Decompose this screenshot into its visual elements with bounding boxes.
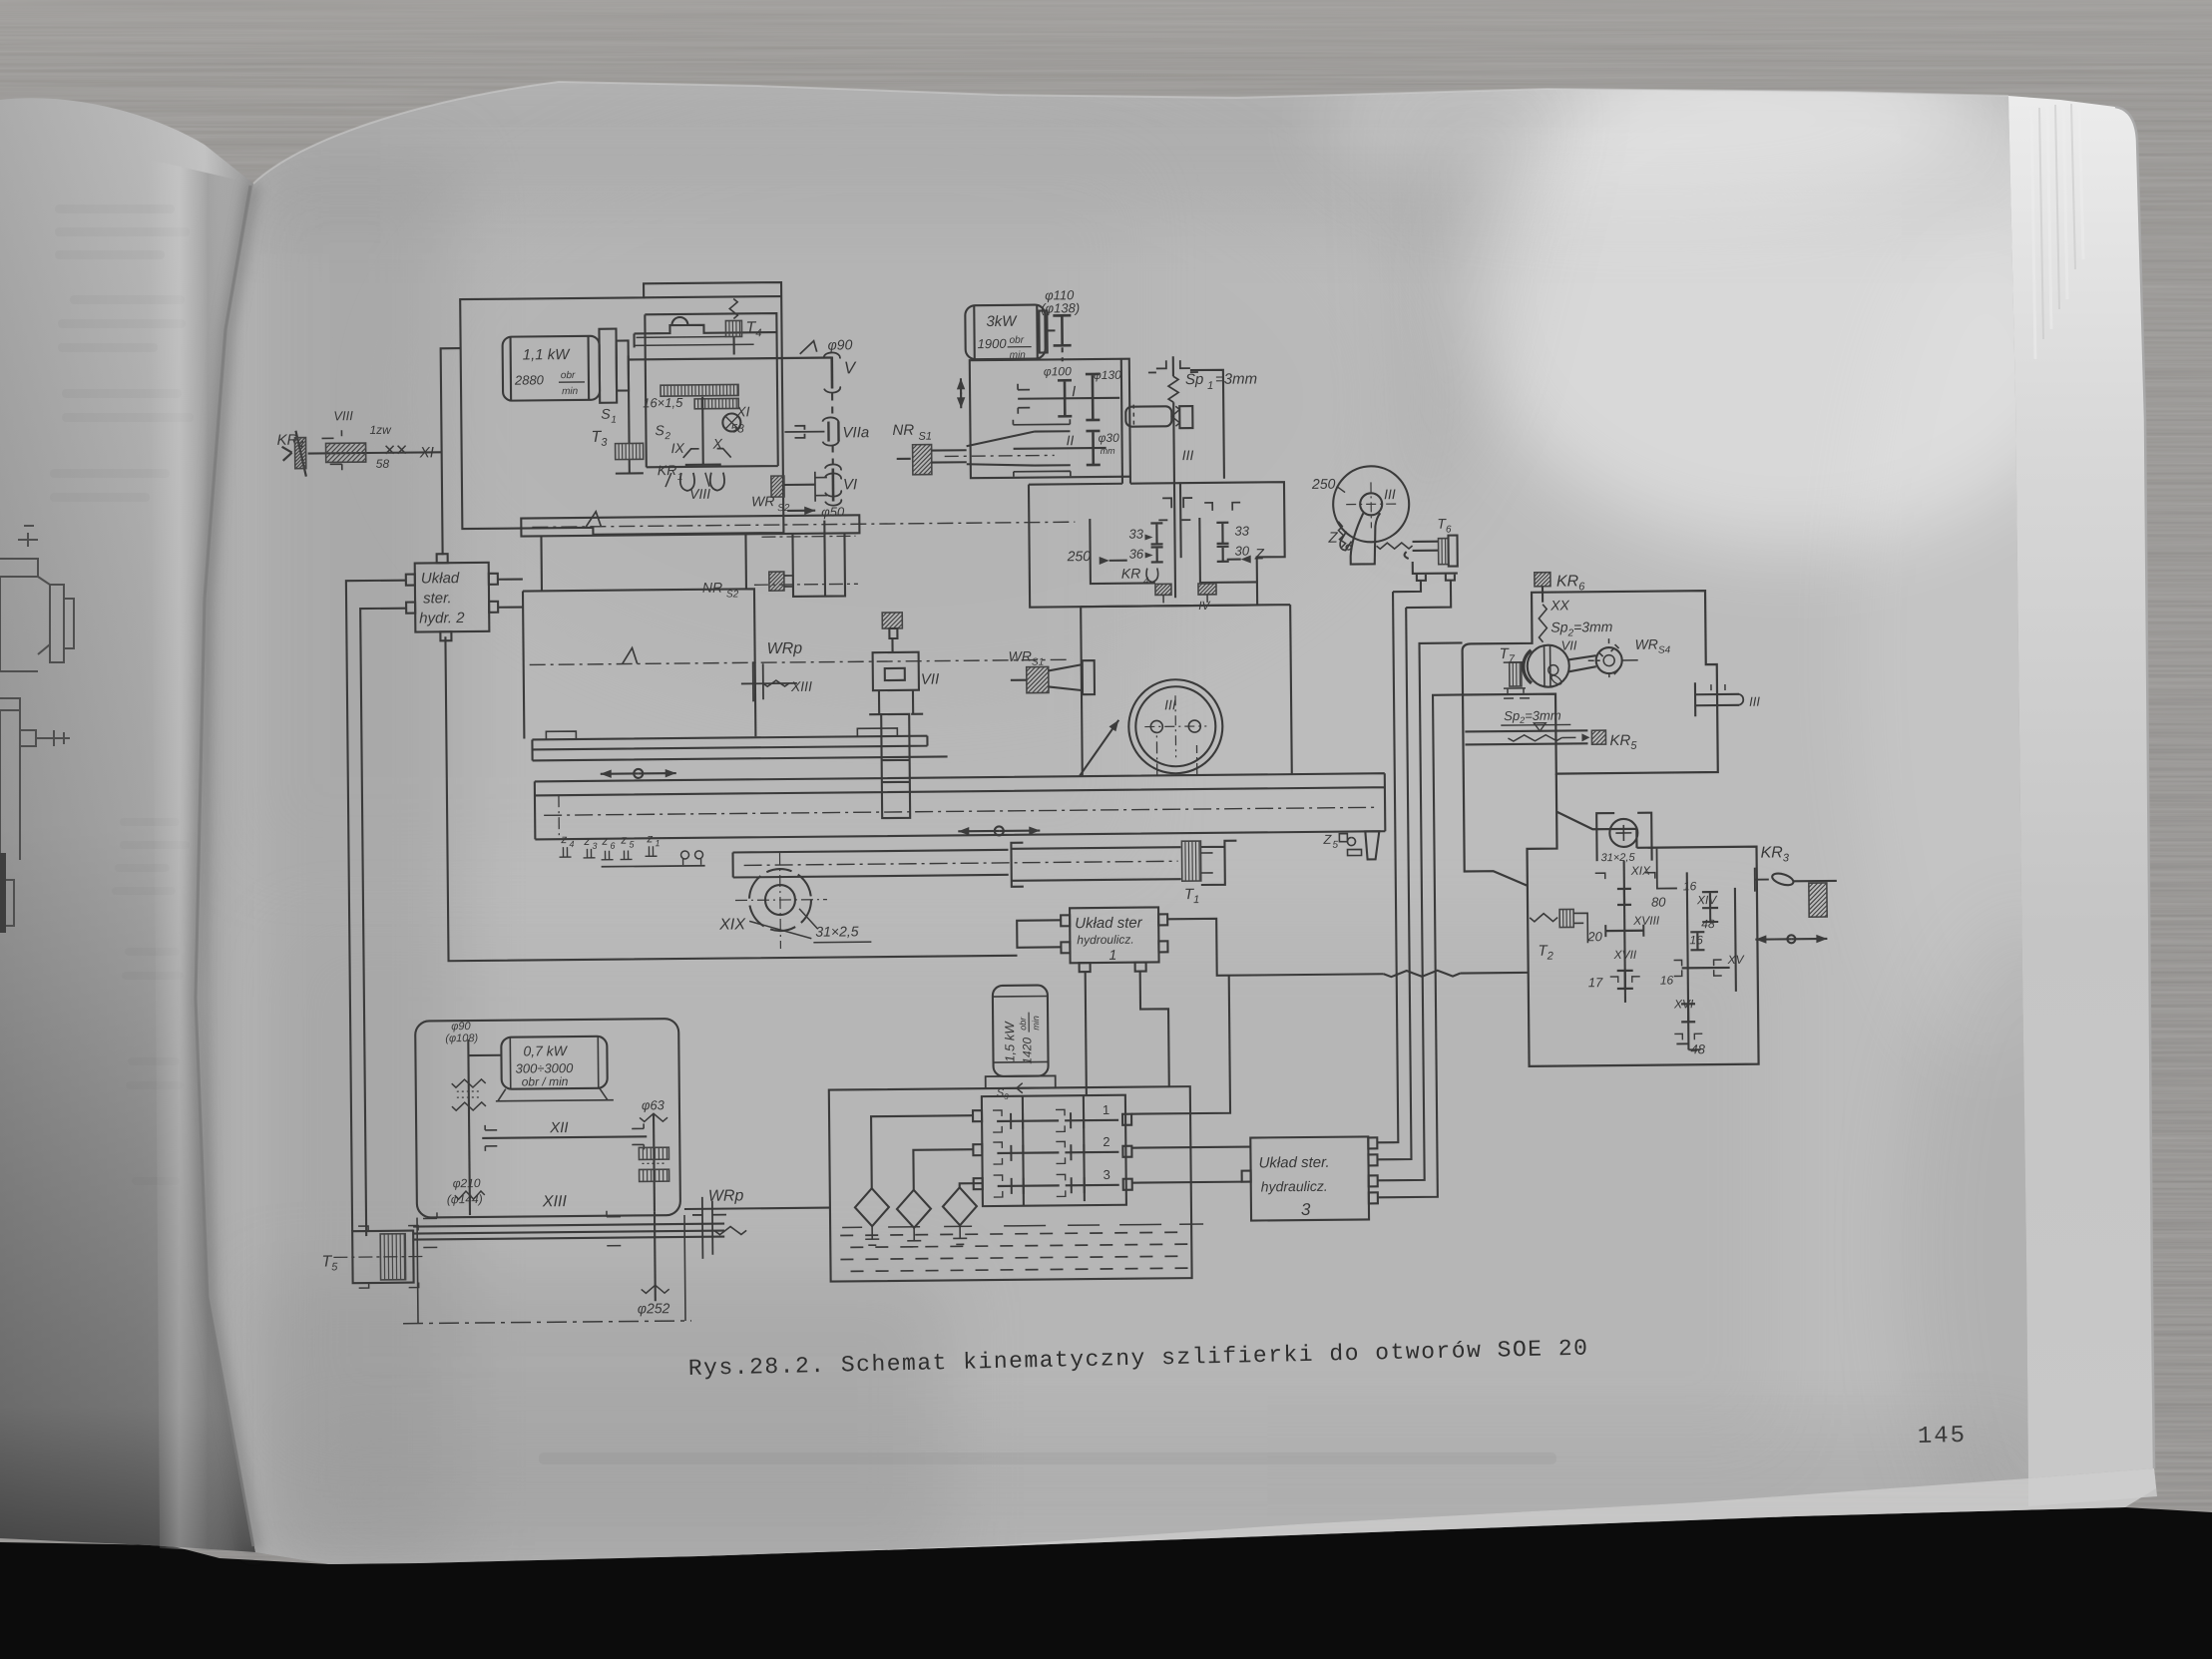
- svg-text:2: 2: [664, 431, 670, 442]
- gear pair 33/30: [1204, 503, 1250, 562]
- shaft III lower section with dog clutches: [1158, 483, 1193, 598]
- svg-text:WR: WR: [751, 493, 774, 509]
- cam follower NRS2: [702, 572, 793, 601]
- svg-text:φ90: φ90: [451, 1021, 471, 1033]
- feed screw block with nut T1: [1011, 841, 1237, 908]
- svg-text:KR: KR: [1121, 566, 1141, 582]
- wires unit1 bottom to pump: [1086, 971, 1169, 1095]
- shaft I with pulleys d100 d130: [1018, 364, 1122, 421]
- belt dashed: [831, 394, 834, 464]
- motor M3 1,5 kW 1420 obr/min (vertical): [985, 985, 1056, 1101]
- svg-text:z: z: [620, 833, 627, 847]
- svg-text:1: 1: [1108, 947, 1116, 963]
- pinion XIX 31x2,5: [718, 852, 872, 949]
- pulley d110 (d138): [1041, 287, 1081, 361]
- svg-text:Układ ster.: Układ ster.: [1258, 1154, 1329, 1172]
- input 250 arrow: [1067, 548, 1127, 566]
- faint ghost of reverse-side caption: [539, 1452, 1556, 1464]
- clutch T7 and index disc: [1500, 644, 1570, 698]
- handwheel knob: [1809, 883, 1827, 917]
- internal grinding spindle with wheel WRS1: [892, 419, 1071, 478]
- hydraulic control unit 1: [1061, 907, 1168, 972]
- svg-text:S: S: [601, 406, 611, 422]
- black table shadow at bottom: [0, 1507, 2212, 1659]
- svg-text:XVIII: XVIII: [1632, 914, 1660, 928]
- crank KR3: [1754, 844, 1836, 892]
- cross slide bar: [521, 507, 1075, 536]
- svg-text:XVII: XVII: [1612, 948, 1636, 962]
- clutch pulley VIIa: [784, 417, 869, 446]
- svg-text:φ210: φ210: [453, 1176, 481, 1190]
- svg-text:obr: obr: [1010, 335, 1025, 346]
- pipe from feed gearbox to tank: [684, 1208, 830, 1209]
- svg-text:6: 6: [610, 841, 615, 851]
- svg-text:XIII: XIII: [790, 678, 812, 694]
- oil level dashes: [840, 1224, 1203, 1271]
- vertical shaft VIII with bevel gears: [655, 396, 750, 465]
- svg-text:145: 145: [1918, 1423, 1968, 1451]
- dressing slide Sp2 KR5: [1465, 707, 1637, 754]
- svg-text:31×2,5: 31×2,5: [1601, 852, 1636, 864]
- svg-text:2880: 2880: [514, 372, 545, 387]
- svg-text:Z: Z: [1327, 530, 1338, 547]
- output gear d252 and base line: [402, 1211, 691, 1324]
- svg-text:16: 16: [1689, 933, 1703, 947]
- svg-text:φ30: φ30: [1098, 431, 1119, 445]
- svg-text:1900: 1900: [978, 336, 1008, 351]
- upper table rails: [532, 727, 947, 760]
- svg-text:z: z: [560, 832, 567, 846]
- svg-text:XI: XI: [735, 403, 749, 419]
- svg-text:1: 1: [611, 415, 617, 426]
- svg-text:1: 1: [1207, 380, 1213, 392]
- svg-text:3: 3: [592, 841, 597, 851]
- svg-text:1,1 kW: 1,1 kW: [523, 346, 572, 363]
- svg-text:58: 58: [376, 457, 390, 471]
- svg-text:16: 16: [1683, 879, 1697, 893]
- svg-text:33: 33: [1234, 524, 1249, 539]
- shaft XII: [482, 1118, 647, 1151]
- svg-text:(φ108): (φ108): [445, 1033, 478, 1044]
- svg-text:min: min: [562, 386, 579, 397]
- svg-text:36: 36: [1129, 547, 1144, 562]
- vertical feed arrows: [957, 378, 966, 408]
- figure caption: [688, 1336, 1589, 1382]
- svg-text:1: 1: [1103, 1102, 1109, 1117]
- svg-text:IX: IX: [671, 440, 685, 456]
- quill housing detail: [634, 316, 775, 347]
- filter connections: [854, 1115, 983, 1247]
- svg-text:φ252: φ252: [638, 1300, 670, 1316]
- svg-text:S2: S2: [726, 589, 739, 600]
- svg-text:VIIa: VIIa: [842, 424, 869, 441]
- gear rack 16x1,5: [643, 384, 738, 410]
- gear pair 33/36: [1128, 523, 1162, 562]
- svg-text:4: 4: [569, 839, 574, 849]
- feeler wheel WRS4: [1567, 635, 1670, 677]
- ratchet drive 31x2,5 XIX: [1594, 813, 1655, 880]
- svg-text:2: 2: [1103, 1134, 1109, 1149]
- svg-text:5: 5: [1332, 840, 1338, 851]
- svg-text:Układ ster: Układ ster: [1075, 915, 1143, 933]
- long shaft XIII to table: [413, 1192, 724, 1248]
- svg-text:30: 30: [1235, 544, 1250, 559]
- svg-text:III: III: [1384, 486, 1396, 502]
- svg-text:1,5 kW: 1,5 kW: [1002, 1021, 1017, 1062]
- bell cranks KR1: [658, 462, 725, 503]
- svg-text:31×2,5: 31×2,5: [815, 923, 859, 939]
- variator pulleys on vertical shaft: [445, 1021, 503, 1216]
- motor M1 1,1 kW 2880 obr/min: [503, 336, 601, 401]
- svg-text:z: z: [601, 834, 608, 848]
- pump outlet pipes: [1130, 976, 1251, 1183]
- svg-text:1: 1: [655, 838, 660, 848]
- rack gears z4 z3 z6 z5 z1: [559, 831, 704, 867]
- svg-text:XV: XV: [1727, 953, 1745, 967]
- limit switch WRS2: [751, 476, 815, 516]
- svg-text:hydraulicz.: hydraulicz.: [1261, 1178, 1328, 1195]
- svg-text:φ130: φ130: [1094, 368, 1121, 382]
- svg-text:III: III: [1182, 447, 1194, 463]
- wire loop left of unit 1: [1017, 920, 1061, 947]
- svg-text:Z: Z: [1322, 832, 1332, 847]
- dresser stand VII: [868, 613, 940, 819]
- svg-text:I: I: [1072, 383, 1076, 400]
- feed gearbox (right) housing: [1463, 692, 1759, 1067]
- svg-text:S2: S2: [777, 503, 790, 514]
- lower feed rail: [733, 848, 1178, 877]
- svg-text:S: S: [655, 422, 664, 438]
- svg-text:XIII: XIII: [542, 1193, 568, 1210]
- svg-text:obr / min: obr / min: [522, 1074, 569, 1088]
- belt wheel 250/III: [1311, 466, 1410, 548]
- feed gearbox housing: [415, 1019, 680, 1218]
- frame line right of spindle: [1190, 370, 1224, 479]
- pulley V d90 on belt: [800, 336, 858, 393]
- svg-text:X: X: [711, 436, 722, 452]
- svg-text:33: 33: [1128, 527, 1143, 542]
- svg-text:3: 3: [1104, 1167, 1110, 1182]
- svg-text:1420: 1420: [1020, 1037, 1034, 1064]
- hydraulic tank: [829, 1086, 1192, 1281]
- wheelhead gearbox housing: [970, 359, 1130, 479]
- svg-text:NR: NR: [892, 422, 914, 439]
- svg-text:48: 48: [1690, 1041, 1705, 1056]
- wires from unit 2 right pins to column: [498, 580, 523, 608]
- wire from headstock to Uklad ster. hydr. 2: [441, 348, 463, 555]
- svg-text:XIX: XIX: [718, 916, 746, 933]
- column housing: [522, 531, 1067, 738]
- jog arrow: [1755, 935, 1827, 944]
- svg-text:obr: obr: [1018, 1017, 1028, 1031]
- svg-text:z: z: [583, 834, 590, 848]
- svg-text:II: II: [1066, 432, 1074, 448]
- svg-text:NR: NR: [702, 580, 722, 596]
- svg-text:ster.: ster.: [423, 590, 452, 607]
- svg-text:XII: XII: [549, 1119, 569, 1136]
- belt tensioner slide: [1125, 404, 1192, 429]
- selector KR4 detail: [1121, 565, 1216, 614]
- vertical shaft XVIII with gears: [1586, 861, 1661, 1004]
- wires from unit 2 left pins down to T5: [346, 581, 412, 1237]
- svg-text:3: 3: [1301, 1200, 1311, 1219]
- svg-text:φ100: φ100: [1044, 364, 1072, 378]
- page block right edge: [2008, 96, 2157, 1506]
- svg-text:mm: mm: [1101, 446, 1116, 456]
- hydraulic control unit 2: [406, 554, 499, 641]
- svg-text:min: min: [1031, 1016, 1041, 1031]
- svg-text:(φ144): (φ144): [447, 1192, 483, 1206]
- svg-text:XI: XI: [419, 444, 434, 461]
- svg-text:φ50: φ50: [821, 504, 845, 519]
- svg-text:Sp: Sp: [1185, 371, 1204, 388]
- shaft II with pulley d30: [1013, 431, 1119, 466]
- motor M4 0,7 kW 300-3000 obr/min: [495, 1037, 614, 1101]
- svg-text:250: 250: [1311, 476, 1336, 492]
- thin bright rim along page top edge: [253, 82, 2008, 184]
- wire bundle verticals: [1373, 642, 1468, 1197]
- left (facing) page of the book: [0, 98, 255, 1552]
- bracket and wires from T6: [1393, 562, 1458, 609]
- brake T4 with spring: [725, 298, 761, 354]
- shaft XI with worm 1zw: [307, 407, 442, 471]
- spindle head housing: [1029, 475, 1285, 607]
- svg-text:φ90: φ90: [828, 336, 853, 352]
- svg-text:V: V: [844, 358, 857, 377]
- bottom page block edge + rim: [329, 1468, 2156, 1564]
- wire from unit 2 to unit 1: [445, 631, 1017, 961]
- left page diagram fragments (previous figure): [0, 526, 74, 933]
- lever spring to clutch T6: [1376, 516, 1457, 568]
- feed arrow into workhead: [1079, 720, 1119, 776]
- gear pump stages 1 2 3: [973, 1095, 1132, 1207]
- spring loaded pawl T2: [1530, 909, 1588, 963]
- wire unit1 right to right gearbox: [1167, 916, 1529, 979]
- gutter shading: [150, 160, 255, 1552]
- svg-text:VIII: VIII: [689, 486, 710, 502]
- svg-text:z: z: [646, 831, 653, 845]
- table right end stop Z5: [1322, 831, 1379, 860]
- clutch T3 on vertical shaft: [591, 355, 644, 473]
- svg-text:WRp: WRp: [708, 1187, 744, 1204]
- svg-text:(φ138): (φ138): [1041, 300, 1080, 315]
- svg-text:III: III: [1164, 696, 1176, 712]
- svg-text:Z: Z: [1254, 546, 1265, 563]
- svg-text:hydr. 2: hydr. 2: [419, 610, 465, 626]
- svg-text:VIII: VIII: [333, 408, 353, 423]
- svg-text:250: 250: [1067, 548, 1092, 564]
- svg-text:80: 80: [1651, 895, 1666, 910]
- table traverse arrow right: [958, 826, 1040, 836]
- pulley VI d50: [815, 464, 858, 520]
- gear coupling T5: [321, 1226, 424, 1289]
- external wheel WRS1 with cone: [1009, 647, 1095, 695]
- svg-text:1: 1: [677, 472, 683, 483]
- svg-text:17: 17: [1588, 975, 1603, 990]
- svg-text:Sp2=3mm: Sp2=3mm: [1504, 708, 1561, 726]
- wires unit 3 to right bundle: [1372, 592, 1411, 1159]
- saddle end bracket: [753, 520, 858, 597]
- svg-text:XIX: XIX: [1630, 864, 1651, 878]
- svg-text:Układ: Układ: [421, 570, 460, 587]
- hand crank KR4: [276, 431, 305, 477]
- handwheel WRp on shaft XIII: [692, 1187, 747, 1259]
- spindle shaft III with spring Sp1: [1148, 355, 1258, 483]
- svg-text:XVI: XVI: [1673, 997, 1694, 1011]
- hydraulic control unit 3: [1241, 1136, 1378, 1220]
- svg-text:φ63: φ63: [642, 1097, 665, 1112]
- svg-text:XX: XX: [1549, 597, 1569, 613]
- workhead housing: [1081, 605, 1292, 776]
- motor flange and clutch S1: [599, 327, 832, 426]
- gear train XIV XV XVI: [1651, 848, 1746, 1057]
- ghost text on left page: [50, 205, 194, 1185]
- workpiece spindle III right: [1695, 682, 1761, 717]
- faceplate wheel III: [1128, 679, 1223, 774]
- wheel truing head housing: [1462, 591, 1718, 774]
- svg-text:=3mm: =3mm: [1215, 370, 1257, 387]
- motor M2 3 kW 1900 obr/min: [965, 304, 1048, 361]
- svg-text:48: 48: [1701, 917, 1715, 931]
- svg-text:obr: obr: [561, 370, 576, 381]
- svg-text:hydroulicz.: hydroulicz.: [1077, 933, 1133, 948]
- svg-text:VI: VI: [843, 476, 857, 493]
- svg-text:S1: S1: [918, 431, 932, 443]
- table dresser WRp: [740, 640, 812, 702]
- svg-text:XIV: XIV: [1696, 893, 1717, 907]
- svg-text:16: 16: [1660, 973, 1674, 987]
- svg-text:1zw: 1zw: [369, 423, 392, 437]
- machine bed table: [534, 733, 1385, 839]
- svg-text:20: 20: [1586, 929, 1602, 944]
- gear d63 column: [639, 1097, 669, 1211]
- svg-text:KR: KR: [658, 462, 677, 478]
- svg-text:3kW: 3kW: [986, 313, 1018, 330]
- svg-text:WRp: WRp: [766, 640, 802, 657]
- grinding headstock housing: [460, 282, 783, 536]
- stop KR6: [1535, 572, 1613, 653]
- svg-text:16×1,5: 16×1,5: [643, 395, 683, 410]
- tension lever Z: [1327, 513, 1380, 565]
- svg-text:VII: VII: [921, 671, 940, 688]
- svg-text:III: III: [1749, 694, 1760, 709]
- input Z arrow: [1227, 546, 1265, 563]
- svg-text:0,7 kW: 0,7 kW: [523, 1042, 569, 1058]
- svg-text:58: 58: [730, 421, 744, 435]
- table traverse arrow left: [601, 769, 676, 779]
